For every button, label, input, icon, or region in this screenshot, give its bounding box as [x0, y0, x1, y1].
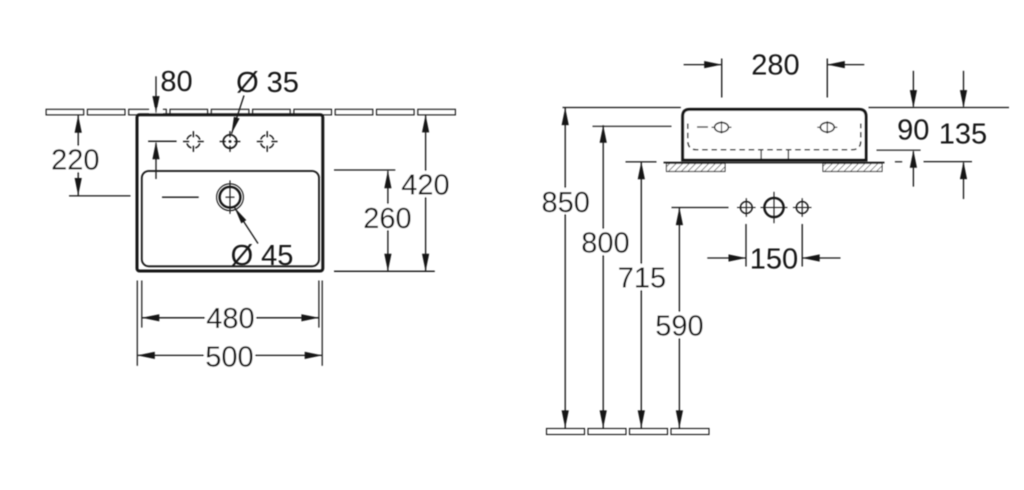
wall gap at 80-dim arrow [150, 108, 163, 113]
svg-text:420: 420 [401, 170, 449, 202]
hatched bracket right [823, 163, 882, 171]
dimension 715 [640, 162, 642, 428]
svg-text:800: 800 [581, 228, 629, 260]
optional tap hole right [257, 131, 278, 152]
top edge extension line right [869, 107, 1010, 109]
svg-text:135: 135 [939, 119, 987, 151]
dimension 135 [895, 71, 972, 199]
svg-text:715: 715 [618, 263, 666, 295]
inner bowl dashed contour [688, 124, 861, 150]
basin inner bowl (top view) [142, 171, 319, 266]
wall tile strip (top view) [46, 109, 455, 115]
leader Ø45 [235, 208, 259, 244]
leader Ø35 [232, 96, 245, 134]
svg-text:80: 80 [160, 66, 192, 98]
tap hole Ø35 [220, 131, 241, 152]
svg-text:Ø 45: Ø 45 [231, 240, 294, 272]
top edge extension line left [563, 107, 681, 109]
svg-text:850: 850 [542, 187, 590, 219]
svg-text:500: 500 [205, 342, 253, 374]
extension lines below basin [137, 281, 322, 366]
dimension 480 [142, 317, 319, 319]
dimension 90 [877, 71, 921, 187]
fixing hole right [817, 121, 837, 133]
tap hole centreline tick [148, 140, 177, 142]
dimension 800 [602, 125, 604, 428]
optional tap hole left [183, 131, 204, 152]
drain well ticks [760, 150, 762, 158]
basin outer rim (top view) [137, 115, 323, 271]
svg-text:590: 590 [655, 311, 703, 343]
svg-text:480: 480 [206, 303, 254, 335]
drain hole Ø45 [162, 180, 243, 214]
dimension 500 [137, 354, 322, 356]
svg-text:150: 150 [750, 243, 798, 275]
dimension 280 [684, 59, 865, 98]
waste pipe circles [737, 192, 812, 223]
dimension 80 [155, 76, 157, 179]
hatched bracket left [667, 163, 726, 171]
svg-text:90: 90 [897, 115, 929, 147]
dimension 150 [707, 224, 840, 267]
dimension 850 [564, 108, 566, 429]
dimension 420 [425, 115, 427, 271]
dimension 220 [77, 115, 79, 195]
svg-text:280: 280 [751, 50, 799, 82]
fixing hole left [697, 121, 732, 133]
svg-text:260: 260 [363, 203, 411, 235]
bracket/shelf line [664, 162, 885, 164]
dimension 590 [678, 208, 680, 428]
basin body (front view) [683, 109, 866, 160]
svg-text:Ø 35: Ø 35 [236, 67, 299, 99]
svg-text:220: 220 [51, 144, 99, 176]
floor line [547, 429, 710, 435]
dimension 260 [387, 171, 389, 271]
